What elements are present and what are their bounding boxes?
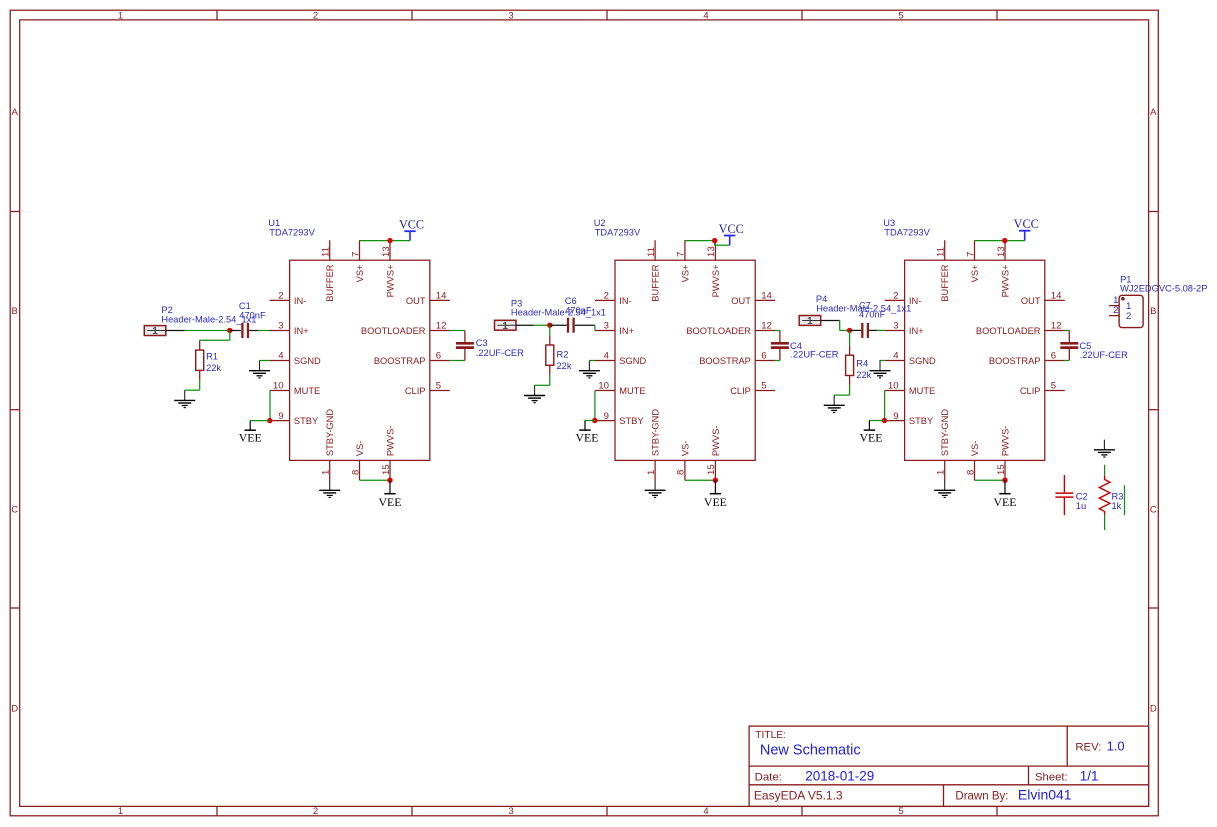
svg-text:VS+: VS+	[355, 265, 365, 283]
capacitor C5 .22UF-CER	[1060, 331, 1078, 361]
power flag VCC at U1	[399, 218, 424, 241]
svg-text:IN+: IN+	[294, 326, 309, 336]
svg-text:VEE: VEE	[379, 495, 402, 509]
svg-text:22k: 22k	[206, 363, 221, 373]
svg-text:10: 10	[598, 381, 609, 392]
svg-text:PWVS-: PWVS-	[385, 426, 395, 456]
resistor R2 22k	[546, 345, 554, 365]
svg-text:3: 3	[278, 321, 283, 332]
U2 pin 10 MUTE	[595, 381, 646, 396]
wire U2 VS- PWVS- to VEE	[685, 479, 716, 481]
U2 pin 12 BOOTLOADER	[686, 321, 775, 336]
svg-text:IN+: IN+	[909, 326, 924, 336]
U2 pin 14 OUT	[731, 291, 775, 306]
ground at U1 STBY-GND pin1	[319, 480, 340, 497]
svg-text:2: 2	[313, 10, 318, 21]
P2 labels	[161, 305, 256, 324]
ground at U1 SGND	[249, 361, 270, 378]
svg-text:VCC: VCC	[399, 218, 424, 232]
U3 pin 4 SGND	[885, 351, 936, 366]
U3 pin 9 STBY	[885, 411, 934, 426]
ground below R2	[524, 385, 545, 402]
U2 pin 6 BOOSTRAP	[699, 351, 775, 366]
svg-text:7: 7	[350, 252, 361, 257]
svg-text:5: 5	[436, 381, 441, 392]
U2 ref label	[594, 218, 641, 237]
svg-text:1: 1	[807, 316, 813, 327]
U3 pin 8 VS-	[965, 441, 980, 481]
svg-text:10: 10	[888, 381, 899, 392]
node junction at U3 pin15	[1002, 478, 1007, 483]
U1 pin 3 IN+	[270, 321, 309, 336]
svg-text:STBY-GND: STBY-GND	[651, 409, 661, 456]
svg-text:10: 10	[273, 381, 284, 392]
ground at U3 SGND	[870, 361, 891, 378]
wire junction down to R4	[849, 330, 851, 355]
U2 pin 13 PWVS+	[706, 240, 721, 297]
U1 pin 4 SGND	[270, 351, 321, 366]
U3 pin 3 IN+	[885, 321, 924, 336]
frame row labels left	[11, 107, 18, 714]
wire C6 to U2 pin3	[575, 325, 595, 330]
svg-text:MUTE: MUTE	[294, 386, 320, 396]
wire U3 MUTE to STBY	[884, 391, 886, 421]
resistor R1 22k	[196, 350, 204, 370]
svg-text:2: 2	[1126, 311, 1131, 322]
power flag VEE at U3 STBY	[860, 421, 883, 445]
capacitor C3 .22UF-CER	[456, 331, 474, 361]
P4 labels	[816, 294, 911, 314]
svg-text:4: 4	[703, 10, 708, 21]
U1 pin 7 VS+	[350, 240, 365, 282]
frame column labels bottom	[118, 806, 904, 817]
U1 pin 1 STBY-GND	[321, 409, 336, 481]
R1 labels	[206, 351, 221, 372]
svg-text:IN+: IN+	[619, 326, 634, 336]
wire junction down to R1	[200, 331, 230, 351]
wire U1 pin12 to C3	[430, 330, 465, 332]
svg-text:C: C	[1150, 505, 1157, 516]
op-amp U3 TDA7293V body	[905, 260, 1045, 460]
svg-text:Header-Male-2.54_1x1: Header-Male-2.54_1x1	[511, 308, 606, 318]
svg-text:VS-: VS-	[680, 441, 690, 457]
svg-text:1: 1	[152, 326, 158, 337]
svg-text:WJ2EDGVC-5.08-2P: WJ2EDGVC-5.08-2P	[1120, 284, 1207, 294]
svg-text:D: D	[1150, 703, 1157, 714]
C7 labels	[859, 300, 886, 319]
svg-text:VCC: VCC	[719, 222, 744, 236]
svg-text:1/1: 1/1	[1080, 768, 1099, 783]
U2 pin 3 IN+	[595, 321, 634, 336]
ground at U2 STBY-GND pin1	[645, 480, 666, 497]
svg-text:1: 1	[502, 321, 508, 332]
U1 pin 8 VS-	[350, 441, 365, 481]
svg-text:VS-: VS-	[970, 441, 980, 457]
wire U3 STBY to VEE	[869, 420, 884, 422]
ground below R4	[824, 395, 845, 412]
resistor R4 22k	[846, 355, 854, 375]
svg-text:TDA7293V: TDA7293V	[595, 227, 641, 237]
svg-text:VCC: VCC	[1014, 217, 1039, 231]
svg-text:7: 7	[965, 252, 976, 257]
svg-text:OUT: OUT	[731, 296, 751, 306]
svg-text:BOOTLOADER: BOOTLOADER	[976, 326, 1041, 336]
wire STBY to VEE	[250, 420, 270, 422]
U3 pin 6 BOOSTRAP	[989, 351, 1065, 366]
wire C3 to U1 pin6	[450, 360, 465, 362]
capacitor C2 1u	[1055, 475, 1073, 515]
wire MUTE pin10 to STBY pin9	[269, 391, 271, 421]
svg-text:1k: 1k	[1112, 501, 1122, 511]
svg-text:2: 2	[278, 291, 283, 302]
connector P2 Header-Male-2.54_1x1	[144, 326, 166, 338]
svg-text:MUTE: MUTE	[909, 386, 935, 396]
svg-text:VEE: VEE	[704, 495, 727, 509]
R2 labels	[557, 350, 572, 371]
wire U3 pin12 to C5	[1064, 330, 1070, 332]
svg-text:PWVS+: PWVS+	[711, 265, 721, 298]
U2 pin 8 VS-	[676, 441, 691, 481]
svg-text:P4: P4	[816, 294, 827, 304]
C3 labels	[476, 338, 524, 358]
svg-text:A: A	[12, 107, 19, 118]
node junction at U2 pin15	[713, 478, 718, 483]
U2 pin 4 SGND	[595, 351, 646, 366]
svg-text:13: 13	[381, 246, 392, 257]
capacitor C6 470nF	[568, 318, 574, 333]
svg-text:Sheet:: Sheet:	[1035, 771, 1068, 783]
svg-text:VS-: VS-	[355, 441, 365, 457]
svg-text:TITLE:: TITLE:	[755, 730, 786, 741]
svg-text:15: 15	[706, 464, 717, 475]
U3 pin 14 OUT	[1021, 291, 1065, 306]
svg-text:B: B	[12, 306, 18, 317]
svg-text:22k: 22k	[557, 361, 572, 371]
U3 pin 1 STBY-GND	[936, 409, 951, 481]
svg-text:PWVS-: PWVS-	[1000, 426, 1010, 456]
svg-text:BOOSTRAP: BOOSTRAP	[989, 356, 1041, 366]
wire R2 to ground	[535, 365, 550, 385]
svg-text:2: 2	[893, 291, 898, 302]
svg-text:TDA7293V: TDA7293V	[884, 227, 930, 237]
U1 pin 5 CLIP	[405, 381, 450, 396]
svg-text:PWVS+: PWVS+	[1000, 265, 1010, 298]
svg-text:5: 5	[1051, 381, 1056, 392]
wire P2 to junction (black then green)	[166, 330, 230, 332]
frame row labels right	[1150, 107, 1157, 714]
wire junction to C6	[550, 324, 567, 326]
P3 labels	[511, 298, 606, 317]
svg-text:1: 1	[646, 470, 657, 475]
svg-text:CLIP: CLIP	[405, 386, 426, 396]
svg-text:5: 5	[898, 10, 903, 21]
svg-text:VEE: VEE	[994, 495, 1017, 509]
op-amp U1 TDA7293V body	[290, 260, 430, 460]
svg-text:VEE: VEE	[239, 430, 262, 444]
svg-text:IN-: IN-	[619, 296, 631, 306]
wire C4 to U2 pin6	[775, 360, 780, 362]
wire R4 to ground	[834, 376, 849, 396]
svg-text:13: 13	[706, 246, 717, 257]
svg-text:R4: R4	[856, 359, 868, 369]
wire C5 to U3 pin6	[1064, 360, 1070, 362]
node junction at P4/C7/R4	[847, 328, 852, 333]
svg-text:3: 3	[508, 806, 513, 817]
svg-text:R2: R2	[557, 350, 569, 360]
svg-text:14: 14	[1051, 291, 1062, 302]
svg-text:15: 15	[996, 464, 1007, 475]
C1 labels	[239, 301, 266, 320]
svg-text:12: 12	[1051, 321, 1062, 332]
svg-text:11: 11	[646, 247, 657, 257]
svg-text:4: 4	[893, 351, 899, 362]
svg-text:SGND: SGND	[909, 356, 936, 366]
wire C7 to U3 pin3	[869, 329, 885, 331]
power flag VEE at U1 STBY	[239, 421, 262, 445]
node junction at U3 pin13	[1002, 238, 1007, 243]
U3 pin 11 BUFFER	[936, 240, 951, 302]
U3 pin 10 MUTE	[885, 381, 936, 396]
node junction at P3/C6/R2	[547, 323, 552, 328]
svg-text:4: 4	[703, 806, 708, 817]
svg-text:VS+: VS+	[680, 265, 690, 283]
svg-text:14: 14	[761, 291, 772, 302]
svg-text:6: 6	[436, 351, 441, 362]
svg-text:11: 11	[936, 247, 947, 257]
wire U2 pin1 to ground	[654, 479, 656, 481]
svg-text:5: 5	[761, 381, 766, 392]
svg-text:2: 2	[604, 291, 609, 302]
node junction at P2/C1/R1	[227, 328, 232, 333]
svg-text:9: 9	[893, 411, 898, 422]
C2 labels	[1076, 491, 1088, 511]
wire U3 VS- PWVS- to VEE	[975, 479, 1006, 481]
svg-text:12: 12	[436, 321, 447, 332]
U1 pin 15 PWVS-	[381, 426, 396, 481]
svg-text:.22UF-CER: .22UF-CER	[790, 350, 838, 360]
svg-text:New Schematic: New Schematic	[760, 743, 861, 759]
wire P4 to junction with jog	[821, 321, 850, 331]
U3 pin 7 VS+	[965, 240, 980, 282]
svg-text:C3: C3	[476, 338, 488, 348]
U2 pin 7 VS+	[676, 240, 691, 282]
node junction at U2 pin13	[712, 238, 717, 243]
svg-text:Date:: Date:	[755, 771, 782, 783]
connector P3 Header-Male-2.54_1x1	[495, 320, 517, 332]
power flag VEE at U2 STBY	[576, 421, 599, 445]
U3 pin 15 PWVS-	[996, 426, 1011, 481]
svg-text:BOOTLOADER: BOOTLOADER	[686, 326, 751, 336]
wire segment right of R3	[1124, 485, 1126, 515]
svg-text:13: 13	[996, 246, 1007, 257]
svg-text:9: 9	[604, 411, 609, 422]
VEE flag U2 bottom	[704, 480, 727, 509]
svg-text:PWVS-: PWVS-	[711, 426, 721, 456]
svg-text:1: 1	[118, 10, 123, 21]
svg-text:.22UF-CER: .22UF-CER	[476, 348, 524, 358]
svg-text:STBY-GND: STBY-GND	[940, 409, 950, 456]
svg-text:470nF: 470nF	[859, 310, 886, 320]
wire U3 SGND to ground	[880, 360, 885, 362]
svg-text:Elvin041: Elvin041	[1018, 787, 1072, 803]
U1 pin 14 OUT	[406, 291, 450, 306]
U3 pin 13 PWVS+	[996, 240, 1011, 297]
wire junction to C1	[230, 330, 241, 332]
wire U1 pin1 to ground	[329, 479, 331, 481]
ground below R1	[174, 390, 195, 407]
svg-text:3: 3	[604, 321, 609, 332]
C6 labels	[565, 296, 592, 316]
svg-text:9: 9	[278, 411, 283, 422]
wire U3 pin1 to ground	[944, 479, 946, 481]
U1 pin 9 STBY	[270, 411, 319, 426]
U3 pin 5 CLIP	[1020, 381, 1065, 396]
capacitor C1 470nF	[242, 323, 248, 338]
svg-text:470nF: 470nF	[239, 310, 266, 320]
svg-text:3: 3	[508, 10, 513, 21]
U1 pin 10 MUTE	[270, 381, 321, 396]
node junction at U1 pin15	[387, 478, 392, 483]
title block	[749, 726, 1149, 806]
svg-text:REV:: REV:	[1075, 741, 1101, 753]
svg-text:6: 6	[761, 351, 766, 362]
svg-text:BOOSTRAP: BOOSTRAP	[374, 356, 426, 366]
svg-text:5: 5	[898, 806, 903, 817]
svg-text:MUTE: MUTE	[619, 386, 645, 396]
wire U3 VS+ PWVS+ to VCC	[975, 239, 1025, 241]
U3 pin 12 BOOTLOADER	[976, 321, 1065, 336]
wire U2 MUTE to STBY	[594, 391, 596, 421]
wire U1 VS- PWVS- to VEE	[360, 479, 390, 481]
svg-text:C6: C6	[565, 296, 577, 306]
node junction at STBY	[267, 418, 272, 423]
node junction at U2 STBY	[592, 418, 597, 423]
svg-text:D: D	[11, 703, 18, 714]
svg-text:BUFFER: BUFFER	[940, 264, 950, 301]
U1 pin 11 BUFFER	[321, 240, 336, 302]
svg-text:STBY: STBY	[909, 416, 933, 426]
svg-text:SGND: SGND	[294, 356, 321, 366]
wire VS+ PWVS+ to VCC	[360, 239, 410, 241]
svg-text:2: 2	[313, 806, 318, 817]
wire U2 VS+ PWVS+ to VCC	[685, 240, 730, 245]
node junction at U3 STBY	[882, 418, 887, 423]
svg-text:VEE: VEE	[576, 430, 599, 444]
connector P1 WJ2EDGVC-5.08-2P	[1119, 295, 1143, 327]
U2 pin 15 PWVS-	[706, 426, 721, 481]
wire SGND pin4 to ground	[259, 360, 270, 362]
svg-text:4: 4	[278, 351, 284, 362]
svg-text:BOOTLOADER: BOOTLOADER	[361, 326, 426, 336]
ground at U2 SGND	[579, 361, 600, 378]
svg-text:C: C	[11, 505, 18, 516]
svg-text:TDA7293V: TDA7293V	[269, 227, 315, 237]
svg-text:11: 11	[321, 247, 332, 257]
svg-text:OUT: OUT	[1021, 296, 1041, 306]
U1 pin 6 BOOSTRAP	[374, 351, 450, 366]
svg-text:R1: R1	[206, 351, 218, 361]
U1 ref label	[268, 218, 315, 237]
U1 pin 2 IN-	[270, 291, 307, 306]
svg-text:BOOSTRAP: BOOSTRAP	[699, 356, 751, 366]
U2 pin 11 BUFFER	[646, 240, 661, 302]
VEE flag U3 bottom	[994, 480, 1017, 509]
svg-text:CLIP: CLIP	[730, 386, 751, 396]
svg-text:7: 7	[676, 252, 687, 257]
svg-text:8: 8	[676, 470, 687, 475]
svg-text:3: 3	[893, 321, 898, 332]
svg-text:VEE: VEE	[860, 430, 883, 444]
VEE flag U1 bottom	[379, 480, 402, 509]
svg-text:STBY: STBY	[619, 416, 643, 426]
wire U2 pin12 to C4	[775, 330, 780, 332]
svg-text:VS+: VS+	[970, 265, 980, 283]
svg-text:IN-: IN-	[294, 296, 306, 306]
wire R1 to ground	[185, 370, 200, 390]
svg-text:15: 15	[381, 464, 392, 475]
ground at U3 STBY-GND pin1	[934, 480, 955, 497]
svg-text:1: 1	[321, 470, 332, 475]
wire ground to R3	[1104, 465, 1106, 476]
P1 pin 2	[1109, 305, 1119, 316]
svg-text:BUFFER: BUFFER	[651, 264, 661, 301]
floating ground above R3	[1094, 440, 1115, 457]
svg-text:14: 14	[436, 291, 447, 302]
U3 ref label	[883, 218, 930, 237]
power flag VCC at U2	[719, 222, 744, 245]
svg-text:C2: C2	[1076, 491, 1088, 501]
wire junction down to R2	[549, 325, 551, 345]
svg-text:6: 6	[1051, 351, 1056, 362]
svg-text:STBY: STBY	[294, 416, 318, 426]
wire C1 to pin3 IN+	[249, 330, 270, 332]
svg-text:EasyEDA V5.1.3: EasyEDA V5.1.3	[754, 789, 843, 803]
frame column labels top	[118, 10, 904, 21]
svg-text:4: 4	[604, 351, 610, 362]
svg-text:B: B	[1150, 306, 1156, 317]
U2 pin 1 STBY-GND	[646, 409, 661, 481]
svg-text:12: 12	[761, 321, 772, 332]
svg-text:SGND: SGND	[619, 356, 646, 366]
wire U2 SGND to ground	[589, 360, 595, 362]
node junction at U1 pin13	[387, 238, 392, 243]
wire junction to C7	[850, 329, 861, 331]
svg-text:1u: 1u	[1076, 501, 1086, 511]
U2 pin 5 CLIP	[730, 381, 775, 396]
svg-text:OUT: OUT	[406, 296, 426, 306]
svg-text:.22UF-CER: .22UF-CER	[1080, 350, 1128, 360]
R3 labels	[1112, 491, 1124, 511]
svg-text:1.0: 1.0	[1107, 738, 1125, 753]
wire U2 STBY to VEE	[585, 420, 595, 422]
svg-text:8: 8	[350, 470, 361, 475]
svg-text:PWVS+: PWVS+	[385, 265, 395, 298]
C4 labels	[790, 341, 839, 360]
svg-text:470nF: 470nF	[565, 305, 592, 315]
svg-text:2: 2	[1113, 305, 1118, 316]
svg-text:8: 8	[965, 470, 976, 475]
svg-text:BUFFER: BUFFER	[325, 264, 335, 301]
capacitor C7 470nF	[862, 323, 868, 338]
wire below R3	[1104, 515, 1106, 530]
svg-text:R3: R3	[1112, 491, 1124, 501]
capacitor C4 .22UF-CER	[771, 331, 789, 361]
connector P4 Header-Male-2.54_1x1	[799, 316, 821, 328]
svg-text:2018-01-29: 2018-01-29	[805, 768, 874, 783]
svg-text:CLIP: CLIP	[1020, 386, 1041, 396]
svg-text:1: 1	[936, 470, 947, 475]
U1 pin 13 PWVS+	[381, 240, 396, 297]
